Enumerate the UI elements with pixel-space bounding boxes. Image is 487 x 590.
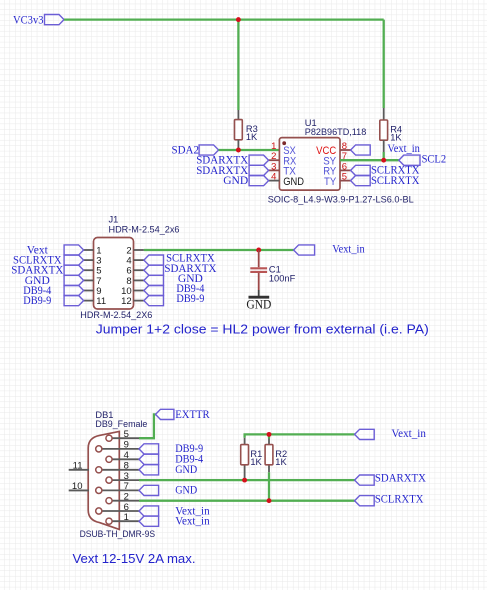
DB1 pin 11 stub: [69, 469, 89, 471]
svg-text:Jumper 1+2 close = HL2 power f: Jumper 1+2 close = HL2 power from extern…: [96, 323, 429, 337]
svg-text:HDR-M-2.54_2X6: HDR-M-2.54_2X6: [80, 310, 152, 320]
junction top rail / R3: [236, 17, 241, 22]
connector DB1 shell: [88, 431, 119, 529]
svg-text:11: 11: [96, 296, 106, 307]
U1 pin 2 stub: [269, 159, 280, 161]
svg-text:100nF: 100nF: [269, 273, 296, 283]
U1 pin 4 stub: [269, 180, 280, 182]
wire VC3v3 rail: [64, 18, 384, 20]
svg-text:HDR-M-2.54_2x6: HDR-M-2.54_2x6: [109, 225, 180, 235]
svg-text:4: 4: [124, 450, 129, 461]
net flag SCLRXTX (U1 pin5): [351, 176, 371, 186]
wire R2 vertical: [268, 434, 270, 438]
svg-text:1K: 1K: [246, 132, 258, 142]
svg-text:P82B96TD,118: P82B96TD,118: [305, 127, 367, 137]
net flag SDARXTX (U1 pin2): [249, 155, 269, 165]
svg-text:SOIC-8_L4.9-W3.9-P1.27-LS6.0-B: SOIC-8_L4.9-W3.9-P1.27-LS6.0-BL: [268, 195, 414, 205]
net flag SCL2: [399, 155, 420, 165]
U1 pin 8 stub: [340, 149, 351, 151]
junction R2 top: [267, 432, 272, 437]
wire DB1 pin3 to SDARXTX: [139, 479, 355, 481]
wire U1 pin7 to SCL2: [340, 159, 399, 161]
resistor R1 1K: [244, 438, 246, 478]
net flag SCLRXTX (U1 pin6): [351, 165, 371, 175]
J1 right net flags: [144, 255, 164, 265]
svg-text:1K: 1K: [275, 457, 287, 467]
svg-text:Vext 12-15V 2A max.: Vext 12-15V 2A max.: [73, 551, 196, 566]
junction SDA2 / R3: [236, 148, 241, 153]
wire J1 pin2 to Vext_in: [144, 249, 294, 251]
svg-text:SDA2: SDA2: [172, 143, 200, 157]
svg-text:SCLRXTX: SCLRXTX: [375, 491, 424, 505]
svg-text:DB9-9: DB9-9: [176, 291, 204, 305]
junction R4 / SCL2 wire: [381, 158, 386, 163]
svg-text:SCL2: SCL2: [422, 152, 447, 166]
U1 pin 6 stub: [340, 169, 351, 171]
svg-text:TY: TY: [324, 176, 337, 188]
net flag Vext_in (DB1): [139, 506, 159, 516]
net flag GND (U1 pin4): [249, 176, 269, 186]
svg-text:5: 5: [124, 429, 129, 440]
svg-text:Vext_in: Vext_in: [391, 426, 426, 440]
svg-text:DB9_Female: DB9_Female: [95, 419, 147, 429]
net flag DB9-4 (DB1): [139, 454, 159, 464]
svg-text:GND: GND: [175, 483, 197, 497]
svg-text:SDARXTX: SDARXTX: [375, 471, 426, 485]
DB1 pin circles and stubs: [112, 437, 139, 439]
svg-text:9: 9: [124, 440, 129, 451]
connector J1 body: [94, 238, 134, 310]
wire R4 bottom to SY net: [383, 152, 385, 160]
op-amp U1 body P82B96TD,118: [279, 138, 340, 191]
svg-text:DB9-9: DB9-9: [23, 293, 51, 307]
svg-text:10: 10: [72, 481, 83, 492]
junction R1 bottom: [242, 478, 247, 483]
J1 left pin stubs: [84, 249, 94, 251]
net flag SDARXTX (bottom): [355, 475, 375, 485]
svg-text:1K: 1K: [250, 457, 262, 467]
wire R1 top elbow: [245, 434, 355, 437]
capacitor C1 100nF: [258, 250, 260, 267]
svg-text:GND: GND: [283, 176, 304, 188]
wire DB1 pin5 to EXTTR: [139, 414, 156, 438]
svg-text:Vext_in: Vext_in: [175, 514, 210, 528]
U1 pin 5 stub: [340, 180, 351, 182]
net flag Vext_in (U1 pin8): [351, 145, 371, 155]
svg-text:4: 4: [271, 172, 276, 183]
net flag SCLRXTX (bottom): [355, 496, 375, 506]
svg-text:Vext_in: Vext_in: [387, 141, 420, 155]
net flag GND (DB1): [139, 465, 159, 475]
U1 pin 3 stub: [269, 169, 280, 171]
wire SDA2 to U1 pin1: [219, 149, 280, 151]
svg-text:VC3v3: VC3v3: [13, 13, 44, 27]
net flag Vext_in (J1 pin2): [294, 245, 315, 255]
svg-text:J1: J1: [109, 215, 119, 225]
net flag SDARXTX (U1 pin3): [249, 165, 269, 175]
svg-text:12: 12: [121, 296, 132, 307]
svg-text:EXTTR: EXTTR: [175, 407, 210, 421]
U1 pin-1 marker dot: [282, 141, 286, 145]
resistor R3 1K: [235, 120, 243, 140]
svg-text:SCLRXTX: SCLRXTX: [371, 173, 420, 187]
wire R3 top drop: [237, 20, 239, 110]
svg-text:DSUB-TH_DMR-9S: DSUB-TH_DMR-9S: [80, 529, 156, 539]
net flag VC3v3: [45, 15, 65, 25]
svg-text:GND: GND: [175, 462, 197, 476]
junction R2 bottom: [267, 498, 272, 503]
wire R4 top drop: [383, 20, 385, 108]
wire DB1 pin2 to SCLRXTX: [139, 500, 355, 502]
J1 left net flags: [64, 245, 84, 255]
resistor R2 1K: [268, 439, 270, 473]
DB1 pin 10 stub: [69, 489, 89, 491]
net flag Vext_in (DB1): [139, 516, 159, 526]
svg-text:GND: GND: [246, 298, 271, 312]
svg-text:Vext_in: Vext_in: [332, 241, 365, 255]
resistor R4 1K: [380, 120, 388, 140]
net flag GND (DB1): [139, 485, 159, 495]
svg-text:11: 11: [73, 460, 83, 471]
svg-text:1: 1: [124, 512, 129, 523]
net flag Vext_in (pull-up rail): [355, 429, 375, 439]
J1 right pin stubs: [134, 249, 144, 251]
svg-text:GND: GND: [223, 173, 248, 187]
net flag DB9-9 (DB1): [139, 444, 159, 454]
net flag EXTTR: [156, 409, 174, 419]
net flag SDA2: [199, 145, 219, 155]
ground symbol GND (C1): [249, 296, 270, 299]
svg-text:5: 5: [342, 172, 347, 183]
junction C1 top: [256, 248, 261, 253]
